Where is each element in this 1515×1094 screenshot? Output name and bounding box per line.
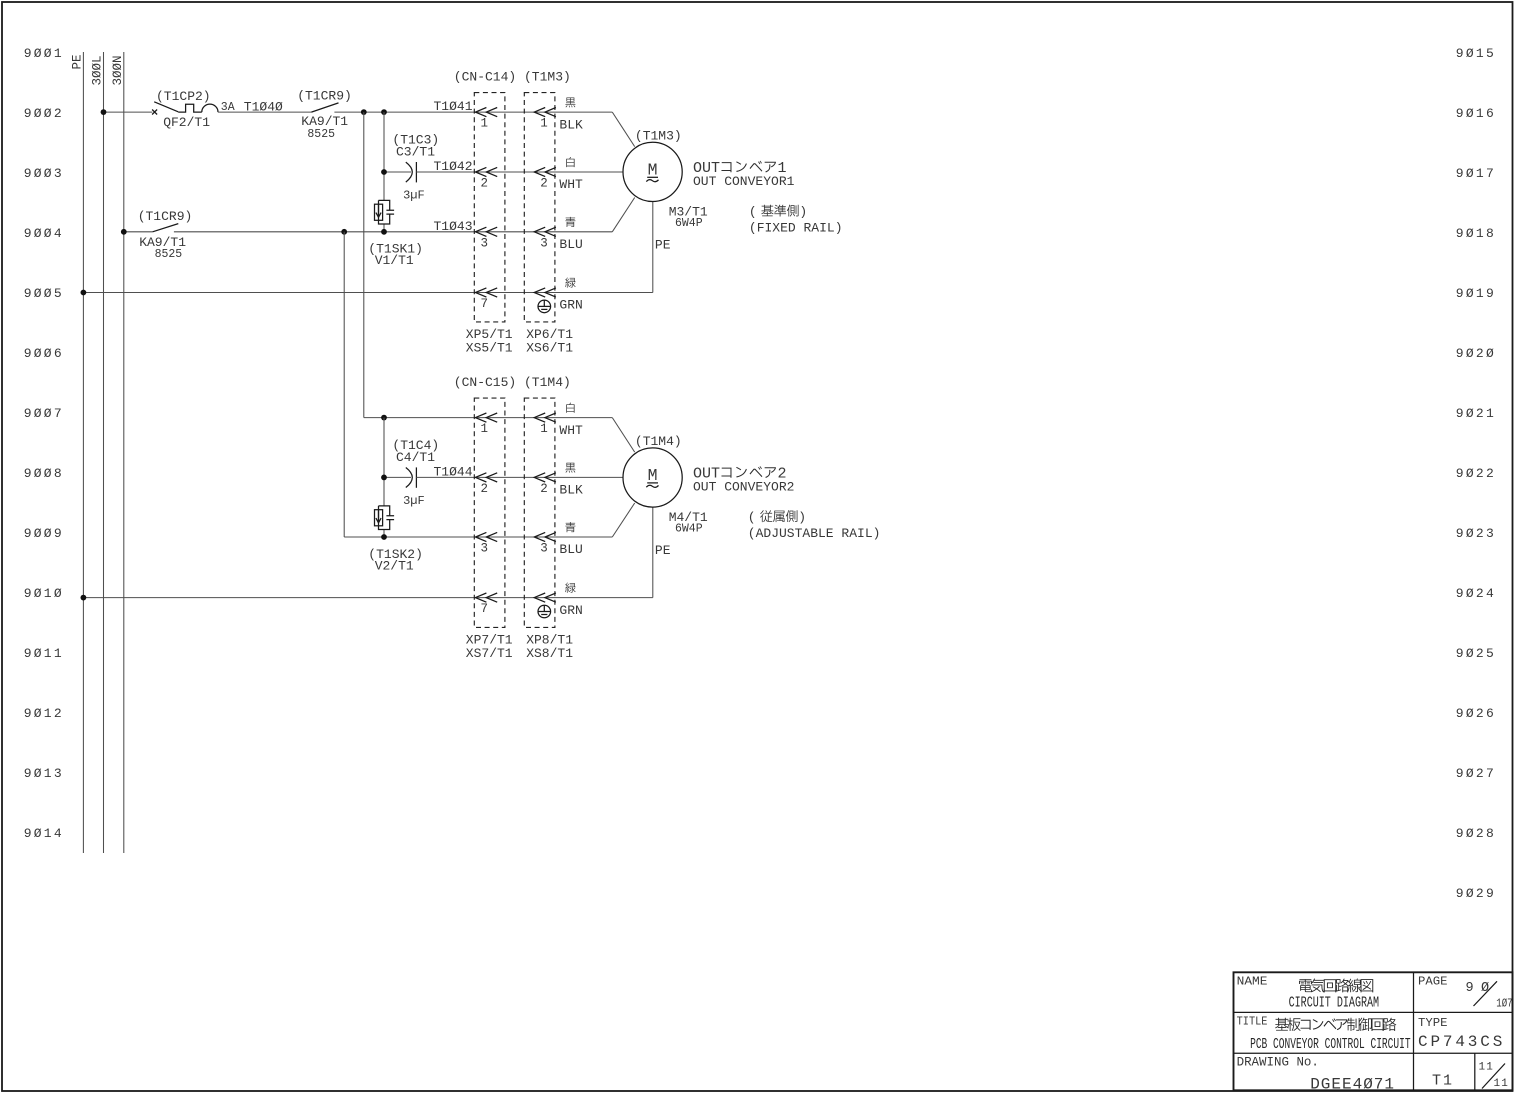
circuit protector QF2/T1 contact x marker [152,110,157,115]
capacitor C3/T1 curved plate [406,162,413,182]
junction on PE bus row 9005 [81,290,87,296]
svg-text:9ØØ3: 9ØØ3 [24,166,64,181]
svg-text:7: 7 [481,297,489,311]
wire T1040 [218,111,311,113]
svg-text:1: 1 [540,422,548,436]
junction node row 9002 x384 [381,109,387,115]
svg-text:(T1M3): (T1M3) [635,128,682,143]
vertical wire 9007 to 9008 capacitor branch [383,418,385,478]
wire colour label BLK M4 [565,463,575,473]
wire 9003 junction to capacitor C3 [384,171,411,173]
vertical wire 9002 to 9003 capacitor branch [383,112,385,172]
title japanese circuit diagram [1299,978,1373,992]
capacitor C4/T1 straight plate [415,467,417,487]
300N bus label [111,55,125,85]
relay contact KA9/T1 row 9002 blade [311,103,338,112]
svg-text:11: 11 [1479,1062,1495,1074]
circuit protector QF2/T1 thermal element [178,104,202,112]
node 300L to QF2 wire [104,111,153,113]
svg-text:(T1CR9): (T1CR9) [138,209,193,224]
junction on PE bus row 9010 [81,595,87,601]
wire colour label BLK M3 [565,98,575,108]
wire C3 to connector T1042 [416,171,622,173]
wire motor M3 earth riser [652,202,654,293]
svg-text:): ) [799,205,807,220]
svg-text:BLU: BLU [559,237,582,252]
svg-text:BLK: BLK [559,483,583,498]
svg-text:1: 1 [540,117,548,131]
svg-text:T1Ø4Ø: T1Ø4Ø [244,99,283,114]
PE bus vertical wire [82,52,84,853]
svg-text:XS6/T1: XS6/T1 [526,341,573,356]
wire BLU diagonal into motor M4 [612,503,634,537]
connector pin arrows CN-C14 pin1 [475,108,486,117]
svg-text:6W4P: 6W4P [675,523,703,536]
motor M4/T1 circle [623,448,682,507]
svg-text:9ØØ4: 9ØØ4 [24,226,64,241]
svg-text:9Ø26: 9Ø26 [1456,706,1496,721]
title block row divider 2 [1234,1052,1513,1054]
svg-text:9Ø18: 9Ø18 [1456,226,1496,241]
svg-text:11: 11 [1494,1078,1510,1090]
surge killer T1SK1 varistor box [375,204,383,220]
svg-text:NAME: NAME [1237,975,1268,989]
title japanese pcb conveyor control circuit [1275,1018,1396,1031]
svg-text:3: 3 [481,236,489,250]
svg-text:V1/T1: V1/T1 [375,253,414,268]
relay contact KA9/T1 row 9004 blade [153,224,179,232]
wire colour label BLU M3 [565,217,575,227]
surge killer T1SK1 outer loop [379,200,390,224]
PE bus label [71,54,85,69]
vertical wire 9002 to 9007 [363,112,365,418]
svg-text:9Ø29: 9Ø29 [1456,886,1496,901]
svg-text:9Ø19: 9Ø19 [1456,286,1496,301]
surge killer T1SK2 arrow [376,510,381,523]
junction node row 9008 [381,475,387,481]
junction node row 9009 [381,534,387,540]
svg-text:TYPE: TYPE [1418,1016,1448,1030]
svg-text:9Ø16: 9Ø16 [1456,106,1496,121]
wire 9007 from feeder to connector [364,417,613,419]
svg-text:9ØØ6: 9ØØ6 [24,346,64,361]
svg-text:3: 3 [540,542,548,556]
svg-text:1Ø7: 1Ø7 [1496,996,1512,1010]
svg-text:DRAWING No.: DRAWING No. [1237,1056,1319,1070]
svg-text:9Ø24: 9Ø24 [1456,586,1496,601]
surge killer T1SK2 capacitor plates [386,516,394,520]
svg-text:9Ø17: 9Ø17 [1456,166,1496,181]
connector CN-C14 XP5/XS5 dashed box [474,93,505,322]
page slash [1474,981,1498,1006]
svg-text:XP7/T1: XP7/T1 [466,632,513,647]
svg-text:BLK: BLK [559,117,583,132]
wire PE row 9005 [83,292,652,294]
svg-text:CIRCUIT DIAGRAM: CIRCUIT DIAGRAM [1289,995,1380,1012]
svg-text:9Ø25: 9Ø25 [1456,646,1496,661]
title block small column divider [1474,1053,1476,1090]
junction on 300N row 9004 [121,229,127,235]
svg-text:(: ( [749,205,757,220]
vertical wire 9004 to 9009 [343,232,345,537]
vertical wire 9003 to surge killer T1SK1 [383,172,385,200]
svg-text:9Ø27: 9Ø27 [1456,766,1496,781]
wire BLU diagonal into motor M3 [612,198,634,232]
svg-text:9Ø: 9Ø [1466,981,1497,996]
300N bus vertical wire [123,52,125,853]
svg-text:8525: 8525 [155,248,183,261]
sheet slash [1482,1064,1505,1089]
surge killer T1SK1 arrow [376,204,381,217]
svg-text:9Ø12: 9Ø12 [24,706,64,721]
svg-text:TITLE: TITLE [1237,1014,1268,1028]
earth symbol in connector CN-C14 [538,300,551,313]
svg-text:): ) [798,510,806,525]
connector pin arrows CN-C15 pin7 [475,593,486,602]
svg-text:PE: PE [71,54,85,69]
svg-text:QF2/T1: QF2/T1 [163,115,210,130]
title block row divider 1 [1234,1011,1513,1013]
junction node row 9007 [381,415,387,421]
svg-text:(CN-C15) (T1M4): (CN-C15) (T1M4) [454,375,571,390]
svg-text:2: 2 [481,482,489,496]
svg-text:3ØØN: 3ØØN [111,55,125,85]
title block column divider [1413,972,1415,1090]
surge killer T1SK2 varistor box [375,510,383,526]
svg-text:OUT CONVEYOR1: OUT CONVEYOR1 [693,174,795,189]
wire 9008 junction to capacitor C4 [384,476,411,478]
svg-text:XP6/T1: XP6/T1 [526,327,573,342]
svg-text:9Ø1Ø: 9Ø1Ø [24,586,64,601]
svg-text:DGEE4Ø71: DGEE4Ø71 [1310,1075,1395,1093]
earth symbol in connector CN-C15 [538,605,551,618]
svg-text:GRN: GRN [559,603,582,618]
svg-text:OUT CONVEYOR2: OUT CONVEYOR2 [693,480,794,495]
svg-text:GRN: GRN [559,298,582,313]
svg-text:3: 3 [481,542,489,556]
svg-text:3ØØL: 3ØØL [91,55,105,85]
junction node row 9003 [381,169,387,175]
wire 300N to KA9 row 9004 [124,231,153,233]
svg-text:(ADJUSTABLE RAIL): (ADJUSTABLE RAIL) [748,526,881,541]
connector pin arrows CN-C15 pin3 [475,532,486,541]
svg-text:BLU: BLU [559,542,582,557]
svg-text:V2/T1: V2/T1 [375,559,414,574]
connector T1M3 XP6/XS6 dashed box [524,93,555,322]
svg-text:3µF: 3µF [403,494,425,508]
svg-text:T1: T1 [1432,1073,1454,1090]
wire 9009 to connector [344,536,612,538]
svg-text:(CN-C14) (T1M3): (CN-C14) (T1M3) [454,70,571,85]
svg-text:XS8/T1: XS8/T1 [526,646,573,661]
svg-text:(: ( [748,510,756,525]
svg-text:CP743CS: CP743CS [1418,1033,1505,1051]
svg-text:8525: 8525 [307,128,335,141]
svg-text:T1Ø41: T1Ø41 [433,99,472,114]
300L bus vertical wire [103,52,105,853]
junction node row 9004 x384 [381,229,387,235]
svg-text:9Ø15: 9Ø15 [1456,46,1496,61]
svg-text:XP5/T1: XP5/T1 [466,327,513,342]
wire WHT diagonal into motor M4 [612,418,634,453]
vertical wire T1SK2 to 9009 [383,530,385,538]
svg-text:9Ø13: 9Ø13 [24,766,64,781]
connector pin arrows CN-C14 pin2 [475,167,486,176]
title block outer border [1234,972,1513,1090]
connector CN-C15 XP7/XS7 dashed box [474,398,505,627]
wire C4 to connector T1044 [416,476,622,478]
svg-text:XS7/T1: XS7/T1 [466,646,513,661]
svg-text:9ØØ5: 9ØØ5 [24,286,64,301]
svg-text:T1Ø42: T1Ø42 [433,159,472,174]
junction node row 9004 x344 [341,229,347,235]
connector pin arrows CN-C15 pin1 [475,413,486,422]
svg-text:9Ø11: 9Ø11 [24,646,64,661]
svg-text:9Ø28: 9Ø28 [1456,826,1496,841]
svg-text:2: 2 [540,482,548,496]
svg-text:9ØØ1: 9ØØ1 [24,46,64,61]
svg-text:PE: PE [655,543,671,558]
capacitor C3/T1 straight plate [415,162,417,182]
svg-text:2: 2 [481,177,489,191]
svg-text:XS5/T1: XS5/T1 [466,341,513,356]
wire colour label BLU M4 [565,522,575,532]
svg-text:(T1M4): (T1M4) [635,434,682,449]
wire motor M4 earth riser [652,507,654,597]
connector T1M4 XP8/XS8 dashed box [524,398,555,627]
wire colour label WHT M3 [566,157,574,167]
wire PE row 9010 [83,597,652,599]
wire KA9 to connector T1043 [174,231,612,233]
svg-text:9Ø14: 9Ø14 [24,826,64,841]
svg-text:(FIXED RAIL): (FIXED RAIL) [749,221,843,236]
svg-text:XP8/T1: XP8/T1 [526,632,573,647]
svg-text:9Ø22: 9Ø22 [1456,466,1496,481]
vertical wire T1SK1 to 9004 [383,224,385,232]
svg-text:(T1CP2): (T1CP2) [156,89,211,104]
svg-text:9Ø21: 9Ø21 [1456,406,1496,421]
wire colour label WHT M4 [566,403,574,413]
circuit protector QF2/T1 magnetic element [202,104,218,112]
wire KA9 to connector T1041 [334,111,612,113]
capacitor C4/T1 curved plate [406,468,413,488]
svg-text:PE: PE [655,237,671,252]
svg-text:9ØØ8: 9ØØ8 [24,466,64,481]
svg-text:PCB CONVEYOR CONTROL CIRCUIT: PCB CONVEYOR CONTROL CIRCUIT [1250,1037,1411,1053]
svg-text:WHT: WHT [559,423,583,438]
svg-text:9Ø23: 9Ø23 [1456,526,1496,541]
svg-text:WHT: WHT [559,177,583,192]
connector pin arrows CN-C14 pin7 [475,288,486,297]
wire BLK diagonal into motor M3 [612,112,634,147]
junction on 300L row 9002 [101,109,107,115]
svg-text:3: 3 [540,236,548,250]
svg-text:1: 1 [481,117,489,131]
surge killer T1SK1 capacitor plates [386,210,394,214]
surge killer T1SK2 outer loop [379,506,390,530]
connector pin arrows CN-C14 pin3 [475,227,486,236]
connector pin arrows CN-C15 pin2 [475,473,486,482]
vertical wire 9008 to surge killer T1SK2 [383,477,385,506]
svg-text:6W4P: 6W4P [675,217,703,230]
svg-text:(T1CR9): (T1CR9) [297,88,352,103]
motor M3/T1 circle [623,142,682,201]
svg-text:C4/T1: C4/T1 [396,450,435,465]
svg-text:9Ø2Ø: 9Ø2Ø [1456,346,1496,361]
wire colour label GRN M4 [565,583,575,593]
svg-text:C3/T1: C3/T1 [396,145,435,160]
junction node row 9002 x364 [361,109,367,115]
svg-text:PAGE: PAGE [1418,975,1448,989]
svg-text:7: 7 [481,602,489,616]
svg-text:9ØØ7: 9ØØ7 [24,406,64,421]
svg-text:3µF: 3µF [403,189,425,203]
svg-text:T1Ø43: T1Ø43 [433,219,472,234]
circuit protector QF2/T1 blade [154,102,178,112]
svg-text:9ØØ2: 9ØØ2 [24,106,64,121]
svg-text:T1Ø44: T1Ø44 [433,465,472,480]
svg-text:2: 2 [540,177,548,191]
svg-text:1: 1 [481,422,489,436]
svg-text:9ØØ9: 9ØØ9 [24,526,64,541]
300L bus label [91,55,105,85]
wire colour label GRN M3 [565,277,575,287]
